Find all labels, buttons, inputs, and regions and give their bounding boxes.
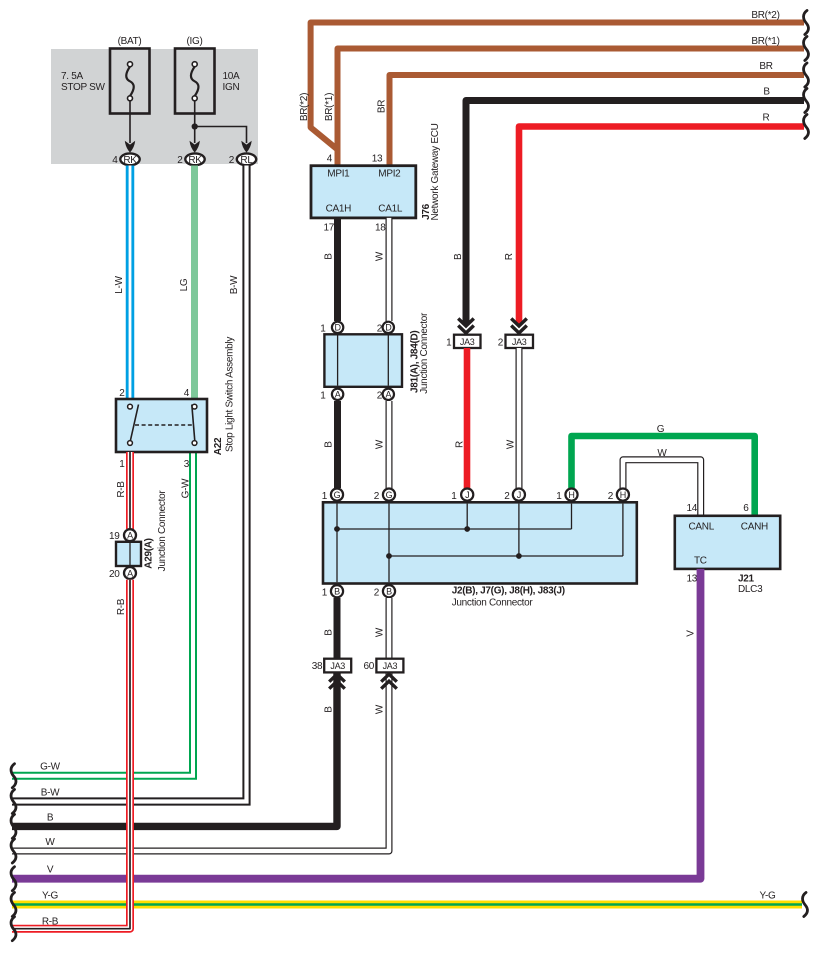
svg-text:G-W: G-W: [181, 478, 192, 499]
svg-text:B-W: B-W: [41, 788, 60, 799]
arrow into JA3 60 (up): [381, 674, 397, 689]
svg-text:17: 17: [323, 223, 334, 234]
junction dot on IG wire: [192, 123, 198, 129]
arrow into JA3 pin 1 (down): [458, 319, 474, 334]
JA3 connector (pin 1): [446, 335, 480, 349]
squiggle left G-W: [11, 764, 16, 788]
svg-text:1: 1: [320, 391, 326, 402]
squiggle right BR: [804, 63, 809, 87]
bus wire inside junction (upper): [337, 528, 572, 530]
svg-text:2: 2: [504, 491, 510, 502]
connector oval RK (pin 2): [185, 153, 204, 165]
svg-text:14: 14: [686, 503, 697, 514]
J21 DLC3 box: [675, 503, 780, 595]
wire R from right edge to JA3 pin 2 arrow: [504, 113, 804, 324]
svg-text:BR(*2): BR(*2): [751, 10, 779, 21]
wire from BAT fuse to connector RK pin 4: [129, 101, 131, 144]
svg-text:(BAT): (BAT): [118, 36, 142, 47]
svg-text:A: A: [127, 568, 133, 578]
wire from IG fuse to connector RK pin 2: [194, 101, 196, 144]
JA3 connector (pin 60): [363, 659, 403, 673]
arrow into RL pin 2: [241, 141, 251, 153]
svg-text:JA3: JA3: [383, 661, 398, 671]
svg-text:STOP SW: STOP SW: [61, 82, 106, 93]
svg-text:BR(*2): BR(*2): [299, 93, 310, 121]
svg-text:BR(*1): BR(*1): [324, 93, 335, 121]
svg-text:3: 3: [184, 459, 190, 470]
squiggle right B: [804, 89, 809, 113]
svg-text:13: 13: [372, 154, 383, 165]
bottom-left wire labels: [40, 762, 61, 876]
svg-text:RL: RL: [240, 155, 253, 166]
wire L-W from RK4 to A22 pin 2: [114, 166, 130, 401]
svg-text:W: W: [374, 251, 385, 261]
pin 2B: [383, 585, 395, 597]
squiggle left B: [11, 814, 16, 838]
fuse 10A IGN (IG): [175, 36, 240, 114]
wire W below JA3 60 down and left to edge: [12, 672, 389, 851]
svg-text:2: 2: [377, 391, 383, 402]
fuse panel gray background: [51, 49, 258, 164]
svg-text:Junction Connector: Junction Connector: [157, 490, 168, 572]
svg-text:2: 2: [119, 388, 125, 399]
svg-text:W: W: [657, 448, 667, 459]
svg-text:BR: BR: [376, 100, 387, 113]
svg-text:13: 13: [686, 573, 697, 584]
squiggle right BR(*1): [804, 37, 809, 61]
svg-text:H: H: [568, 490, 574, 500]
svg-text:W: W: [45, 837, 55, 848]
squiggle right BR(*2): [804, 11, 809, 35]
squiggle left R-B: [11, 917, 16, 941]
pin 2G: [383, 489, 395, 501]
wire B from J76 pin 17 to J81 pin 1D: [323, 218, 337, 321]
svg-text:D: D: [385, 323, 392, 333]
svg-text:CA1L: CA1L: [378, 204, 403, 215]
svg-text:J2(B), J7(G), J8(H), J83(J): J2(B), J7(G), J8(H), J83(J): [452, 586, 565, 597]
svg-text:2: 2: [374, 588, 380, 599]
wire W from J76 pin 18 to J81 pin 2D: [374, 218, 389, 321]
svg-text:CANL: CANL: [689, 522, 715, 533]
svg-text:Network Gateway ECU: Network Gateway ECU: [430, 123, 441, 220]
fuse 7.5A STOP SW (BAT): [61, 36, 150, 114]
svg-text:2: 2: [374, 491, 380, 502]
svg-text:JA3: JA3: [512, 337, 527, 347]
wire R-B from A29 pin 20 down and left to edge (drawn on top): [12, 580, 130, 929]
svg-text:V: V: [47, 865, 54, 876]
svg-text:A22: A22: [213, 437, 224, 455]
svg-text:2: 2: [498, 338, 504, 349]
svg-text:1: 1: [322, 588, 328, 599]
svg-text:MPI1: MPI1: [327, 169, 350, 180]
wire BR(*2) from right edge to J76 pin 4: [299, 10, 804, 166]
svg-text:18: 18: [375, 223, 386, 234]
svg-text:R-B: R-B: [116, 481, 127, 498]
svg-text:20: 20: [109, 569, 120, 580]
svg-text:J21: J21: [738, 573, 755, 584]
svg-text:D: D: [334, 323, 341, 333]
wire G from J8 pin 1H to J21 CANH: [572, 424, 755, 516]
svg-text:Junction Connector: Junction Connector: [419, 312, 430, 394]
svg-text:BR(*1): BR(*1): [751, 36, 779, 47]
wire B from J81 pin 1A to J2 pin 1G: [323, 401, 337, 488]
A22 Stop Light Switch Assembly box: [116, 337, 236, 470]
wire from junction to connector RL pin 2: [195, 127, 247, 144]
svg-text:B: B: [386, 587, 392, 597]
svg-text:4: 4: [184, 388, 190, 399]
svg-text:7. 5A: 7. 5A: [61, 71, 83, 82]
svg-text:G: G: [657, 424, 665, 435]
svg-text:38: 38: [312, 661, 323, 672]
svg-text:R: R: [763, 113, 770, 124]
svg-text:JA3: JA3: [330, 661, 345, 671]
wire BR(*1) from right edge to J76 pin 4: [324, 36, 804, 166]
svg-text:CA1H: CA1H: [326, 204, 352, 215]
wire B from right edge to JA3 pin 1 arrow: [453, 87, 804, 324]
svg-text:MPI2: MPI2: [378, 169, 401, 180]
J2(B), J7(G), J8(H), J83(J) junction connector box: [322, 489, 637, 609]
svg-text:2: 2: [229, 155, 235, 166]
bus wire inside junction (lower): [389, 555, 623, 557]
squiggle left B-W: [11, 790, 16, 814]
svg-text:W: W: [374, 704, 385, 714]
svg-text:2: 2: [377, 324, 383, 335]
svg-text:B: B: [323, 253, 334, 260]
arrow into JA3 pin 2 (down): [511, 319, 527, 334]
pin 2H: [617, 489, 629, 501]
squiggle left Y-G: [11, 893, 16, 917]
squiggle left V: [11, 867, 16, 891]
wire G-W from A22 pin 3 down and left to edge: [12, 452, 193, 776]
svg-text:J: J: [517, 490, 521, 500]
svg-text:Junction Connector: Junction Connector: [452, 598, 534, 609]
arrow into RK pin 2: [190, 141, 200, 153]
svg-text:G-W: G-W: [40, 762, 61, 773]
svg-text:LG: LG: [179, 278, 190, 291]
wire B below JA3 38 down and left to edge: [12, 672, 337, 826]
wire B from J2 pin 1B to JA3 pin 38: [323, 598, 337, 659]
squiggle right R: [804, 115, 809, 139]
J76 Network Gateway ECU box: [311, 123, 441, 233]
svg-text:A: A: [335, 390, 341, 400]
svg-text:G: G: [334, 490, 341, 500]
arrow into RK pin 4: [125, 141, 135, 153]
svg-text:B: B: [453, 253, 464, 260]
wire W from J8 pin 2H to J21 CANL: [623, 448, 701, 516]
svg-text:J: J: [465, 490, 469, 500]
svg-text:A29(A): A29(A): [144, 538, 155, 568]
svg-text:B: B: [323, 706, 334, 713]
pin 1B: [331, 585, 343, 597]
svg-text:4: 4: [327, 154, 333, 165]
svg-text:A: A: [127, 531, 133, 541]
wire W from JA3 pin 2 to J2 pin 2J: [506, 348, 520, 488]
wire Y-G across the bottom: [12, 891, 802, 905]
svg-text:R-B: R-B: [116, 598, 127, 615]
svg-text:10A: 10A: [223, 71, 241, 82]
svg-text:2: 2: [177, 155, 183, 166]
svg-text:DLC3: DLC3: [738, 584, 763, 595]
wire R-B from A22 pin 1 to A29 pin 19: [116, 452, 130, 529]
svg-text:1: 1: [320, 324, 326, 335]
wire BR from right edge to J76 pin 13: [376, 61, 804, 166]
svg-text:W: W: [374, 439, 385, 449]
svg-text:B: B: [47, 812, 54, 823]
pin 1J: [461, 489, 473, 501]
wire LG from RK2 to A22 pin 4: [179, 166, 195, 401]
squiggle left W: [11, 839, 16, 863]
JA3 connector (pin 38): [312, 659, 351, 673]
wire R from JA3 pin 1 to J2 pin 1J: [455, 348, 468, 488]
wire B-W from RL2 down and left to edge: [12, 166, 247, 802]
pin 1G: [331, 489, 343, 501]
svg-text:H: H: [620, 490, 626, 500]
svg-text:B-W: B-W: [229, 275, 240, 294]
wire W from J81 pin 2A to J2 pin 2G: [374, 401, 389, 488]
svg-text:1: 1: [119, 459, 125, 470]
connector oval RL (pin 2): [237, 153, 256, 165]
svg-text:4: 4: [112, 155, 118, 166]
svg-text:B: B: [323, 441, 334, 448]
squiggle right Y-G: [803, 893, 808, 917]
A29(A) junction connector: [109, 490, 168, 580]
svg-text:L-W: L-W: [114, 275, 125, 293]
pin 2J: [513, 489, 525, 501]
svg-text:6: 6: [743, 503, 749, 514]
svg-text:19: 19: [109, 531, 120, 542]
svg-text:Stop Light Switch Assembly: Stop Light Switch Assembly: [225, 337, 236, 452]
svg-text:RK: RK: [123, 155, 137, 166]
svg-text:R-B: R-B: [42, 916, 59, 927]
svg-text:2: 2: [608, 491, 614, 502]
svg-text:CANH: CANH: [741, 522, 768, 533]
svg-text:A: A: [385, 390, 391, 400]
svg-text:B: B: [763, 87, 770, 98]
wire W from J2 pin 2B to JA3 pin 60: [374, 598, 389, 659]
svg-text:BR: BR: [759, 61, 772, 72]
svg-text:1: 1: [322, 491, 328, 502]
svg-text:B: B: [323, 629, 334, 636]
svg-text:TC: TC: [694, 556, 707, 567]
svg-text:Y-G: Y-G: [760, 891, 776, 902]
svg-text:R: R: [455, 441, 466, 448]
arrow into JA3 38 (up): [329, 674, 345, 689]
svg-text:Y-G: Y-G: [42, 891, 58, 902]
svg-text:IGN: IGN: [223, 82, 240, 93]
svg-text:W: W: [374, 627, 385, 637]
wire V from J21 TC down and left to edge: [12, 569, 701, 879]
svg-text:RK: RK: [188, 155, 202, 166]
svg-text:B: B: [334, 587, 340, 597]
svg-text:R: R: [504, 253, 515, 260]
svg-text:1: 1: [556, 491, 562, 502]
svg-text:V: V: [686, 630, 697, 637]
pin 1H: [565, 489, 577, 501]
J81(A), J84(D) junction connector box: [320, 312, 430, 401]
JA3 connector (pin 2): [498, 335, 533, 349]
svg-text:JA3: JA3: [460, 337, 475, 347]
connector oval RK (pin 4): [120, 153, 139, 165]
svg-text:G: G: [386, 490, 393, 500]
svg-text:W: W: [506, 439, 517, 449]
svg-text:60: 60: [363, 661, 374, 672]
svg-text:1: 1: [451, 491, 457, 502]
svg-text:(IG): (IG): [186, 36, 202, 47]
svg-text:1: 1: [446, 338, 452, 349]
